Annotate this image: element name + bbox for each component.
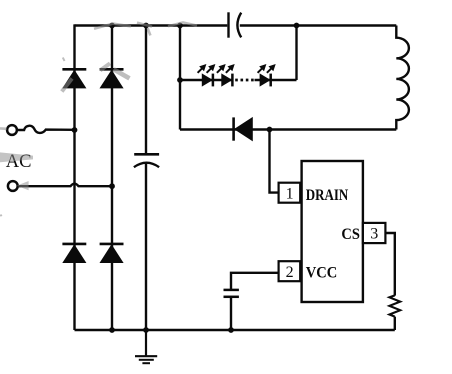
svg-text:1: 1 bbox=[286, 185, 294, 202]
LED LED1 arrows bbox=[198, 65, 215, 73]
pin 1 box bbox=[279, 183, 301, 203]
wire: left bridge rail x=74.5 bbox=[73, 24, 75, 330]
wire: drain connection from diode node bbox=[270, 130, 280, 193]
capacitor C2 curved plate bbox=[134, 163, 159, 168]
wire: grey pen mark near node x=112 bbox=[94, 24, 131, 29]
wire: freewheel diode row bbox=[180, 128, 396, 130]
node: bottom rail / rail2 junction bbox=[109, 327, 115, 333]
wire: LED feed rail x=180 bbox=[179, 26, 181, 130]
wire: grey pen mark near node x=146 bbox=[137, 23, 152, 36]
wire: grey stub left of top terminal bbox=[0, 127, 7, 130]
wire: filter-cap rail lower segment bbox=[145, 162, 147, 330]
wire: LED string right riser bbox=[295, 26, 297, 81]
capacitor C2 bulk filter: straight plate bbox=[134, 153, 159, 156]
LED LED2 arrows bbox=[217, 65, 234, 73]
wire: LED row left segment bbox=[180, 79, 233, 81]
wire: grey arrowhead at bottom terminal bbox=[17, 181, 29, 190]
op-amp U1 controller IC body bbox=[302, 161, 363, 302]
node: AC neutral / rail2 junction bbox=[109, 183, 115, 189]
ac source terminal bottom bbox=[8, 181, 18, 191]
diode D1 bridge top-left bbox=[62, 69, 86, 88]
LED LED2 bbox=[222, 74, 233, 87]
wire: cs wire pin 3 to resistor bbox=[384, 233, 394, 296]
svg-text:3: 3 bbox=[370, 226, 378, 243]
wire: bottom rail bbox=[75, 329, 395, 331]
LED LED3 bbox=[260, 74, 271, 87]
wire: grey pen mark near node x=180 bbox=[168, 22, 197, 26]
inductor L1 (right vertical, 4 loops) bbox=[396, 26, 409, 130]
node: bottom rail / ground junction bbox=[143, 327, 149, 333]
diode D4 bridge bottom-right bbox=[100, 244, 124, 263]
wire: grey pen mark at D1 bbox=[62, 79, 72, 92]
wire: second bridge rail x=112 bbox=[111, 26, 113, 331]
node: bottom rail / C3 junction bbox=[228, 327, 234, 333]
capacitor C1 curved plate bbox=[237, 13, 241, 38]
node: diode row / drain junction bbox=[267, 127, 273, 133]
wire: grey pen mark at D2 upper bbox=[100, 63, 110, 70]
diode D2 bridge top-right bbox=[100, 69, 124, 88]
capacitor C1 series in top rail: straight plate bbox=[227, 12, 229, 37]
resistor R1 current sense bbox=[389, 295, 400, 316]
node: top rail / LED feed junction bbox=[177, 23, 183, 29]
svg-text:VCC: VCC bbox=[306, 264, 338, 281]
wire: grey wedge behind AC label bbox=[0, 152, 33, 162]
LED LED1 bbox=[202, 74, 213, 87]
wire: LED row right segment bbox=[255, 79, 297, 81]
capacitor C3 vcc: bottom plate bbox=[224, 296, 239, 299]
wire: top rail left segment bbox=[75, 24, 228, 26]
LED LED3 arrows bbox=[258, 65, 275, 73]
wire: grey tick above D1 bbox=[63, 58, 65, 62]
node: top rail / LED riser junction bbox=[294, 23, 300, 29]
diode D3 bridge bottom-left bbox=[62, 244, 86, 263]
svg-text:DRAIN: DRAIN bbox=[306, 187, 349, 204]
node: top rail / rail2 junction bbox=[109, 23, 115, 29]
ground bbox=[135, 330, 157, 363]
wire: grey pen mark at D2 lower bbox=[114, 69, 130, 78]
svg-text:2: 2 bbox=[286, 264, 294, 281]
wire: neutral with hop over rail x=74.5 bbox=[18, 184, 112, 187]
wire: resistor lower lead bbox=[394, 317, 396, 330]
wire: filter-cap rail upper segment bbox=[145, 26, 147, 154]
ac source terminal top bbox=[7, 125, 17, 135]
wire: top rail right segment bbox=[240, 24, 396, 26]
diode D5 freewheel (points left) bbox=[234, 117, 253, 140]
wire: LED row dashed segment (omitted LEDs) bbox=[235, 79, 254, 82]
wire: C3 lower lead to ground rail bbox=[230, 297, 232, 330]
fuse squiggle on live wire bbox=[17, 126, 75, 133]
pin 2 box bbox=[279, 261, 301, 281]
pin 3 box bbox=[363, 223, 386, 243]
svg-text:CS: CS bbox=[341, 226, 360, 243]
wire: vcc wire from pin 2 to C3 bbox=[231, 273, 280, 290]
node: AC live / rail1 junction bbox=[72, 127, 78, 133]
node: top rail / filter cap junction bbox=[143, 23, 149, 29]
capacitor C3 vcc: top plate bbox=[224, 289, 239, 292]
wire: grey mark left edge bbox=[0, 215, 1, 217]
node: LED feed / LED row junction bbox=[177, 77, 183, 83]
